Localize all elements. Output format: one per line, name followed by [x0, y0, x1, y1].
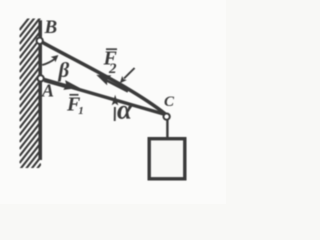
svg-text:C: C	[164, 94, 175, 110]
svg-text:2: 2	[108, 61, 117, 77]
svg-text:1: 1	[78, 105, 84, 117]
svg-text:B: B	[44, 17, 58, 38]
svg-text:β: β	[58, 58, 70, 82]
svg-text:α: α	[117, 94, 133, 124]
svg-text:A: A	[41, 81, 54, 101]
